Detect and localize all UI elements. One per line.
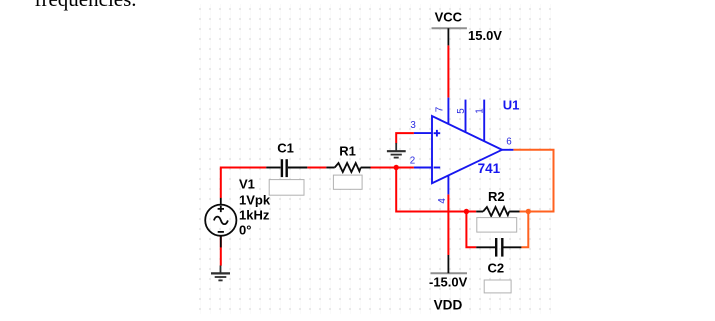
wire left branch down to C2	[466, 212, 476, 248]
svg-text:1kHz: 1kHz	[239, 207, 270, 222]
ground (pin 3)	[387, 143, 406, 158]
value box C2	[484, 280, 511, 293]
svg-text:R1: R1	[339, 144, 356, 159]
svg-text:-15.0V: -15.0V	[429, 275, 468, 290]
ground (V1)	[211, 266, 230, 281]
value box C1	[269, 180, 304, 196]
schematic grid	[196, 4, 558, 314]
svg-text:0°: 0°	[239, 222, 251, 237]
svg-text:VCC: VCC	[435, 9, 463, 24]
svg-text:1Vpk: 1Vpk	[239, 192, 271, 207]
svg-text:3: 3	[410, 120, 416, 131]
svg-text:7: 7	[434, 107, 445, 112]
svg-text:V1: V1	[239, 177, 255, 192]
wire pin 3 to ground	[396, 133, 414, 143]
svg-text:C1: C1	[277, 140, 294, 155]
capacitor C2	[476, 238, 521, 257]
power VCC rail	[432, 27, 467, 29]
wire R2 orange lead	[520, 211, 529, 213]
resistor R2	[476, 207, 519, 216]
wire output pin 6 feedback loop	[513, 150, 553, 212]
capacitor C1	[266, 159, 307, 177]
svg-text:R2: R2	[488, 189, 505, 204]
svg-text:2: 2	[410, 155, 415, 166]
node junction at R2 right	[526, 209, 531, 214]
svg-text:C2: C2	[488, 261, 505, 276]
value box R2	[477, 218, 517, 233]
op-amp U1	[414, 98, 514, 195]
label V1 value	[239, 177, 271, 238]
source V1	[205, 198, 236, 248]
wire C1 to R1	[307, 167, 326, 169]
node junction at R2 left	[464, 209, 469, 214]
wire VCC to pin 7	[447, 45, 449, 97]
wire R1 to pin 2	[371, 167, 414, 169]
node junction at pin 2	[394, 165, 399, 170]
power VDD rail	[431, 272, 468, 274]
wire V1 bottom to ground	[220, 236, 222, 266]
svg-text:VDD: VDD	[434, 298, 463, 313]
value box R1	[333, 175, 362, 189]
svg-text:1: 1	[475, 108, 486, 113]
svg-text:4: 4	[437, 198, 448, 204]
resistor R1	[326, 163, 370, 172]
wire V1 top to C1	[221, 168, 266, 199]
wire pin 4 to VDD	[447, 194, 449, 255]
svg-text:15.0V: 15.0V	[468, 28, 502, 43]
svg-text:6: 6	[506, 137, 512, 148]
wire junction down and right to R2	[396, 168, 476, 212]
svg-text:U1: U1	[503, 97, 520, 112]
svg-text:741: 741	[478, 161, 501, 176]
svg-text:5: 5	[456, 108, 467, 114]
wire R2 right to C2 right	[521, 212, 528, 248]
svg-text:frequencies.: frequencies.	[35, 0, 137, 11]
